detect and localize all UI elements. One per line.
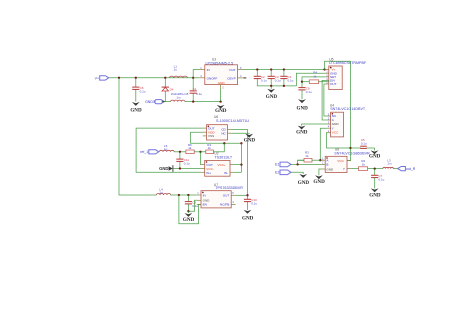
ground below C8 <box>297 99 309 111</box>
svg-text:LTC6995CS6TRMPBF: LTC6995CS6TRMPBF <box>329 61 367 65</box>
svg-text:0.1u: 0.1u <box>379 178 385 182</box>
svg-text:SN74LVC1G14DBVT: SN74LVC1G14DBVT <box>330 107 366 111</box>
capacitor C3 <box>268 70 281 86</box>
node junction R1/C8 <box>301 81 303 83</box>
svg-text:TS3011ILT: TS3011ILT <box>214 155 232 159</box>
svg-text:GND: GND <box>215 108 227 114</box>
svg-text:0.1u: 0.1u <box>288 79 294 83</box>
svg-text:1k: 1k <box>305 154 309 158</box>
svg-text:out_R: out_R <box>406 167 416 171</box>
node junction C4 <box>283 68 285 70</box>
svg-text:OUT: OUT <box>229 68 236 72</box>
pin stub U4 VCC <box>327 132 330 134</box>
wire R4 pullup to VCC line <box>223 143 225 152</box>
wire to U2 IN- <box>234 171 242 173</box>
capacitor C9 <box>185 195 199 211</box>
ground right of C5 <box>369 148 381 159</box>
wire CBYP no-connect dash <box>244 77 247 79</box>
inductor L1 <box>169 64 187 78</box>
svg-text:VSS: VSS <box>208 134 214 138</box>
svg-text:GND: GND <box>326 168 334 172</box>
svg-text:VCC+: VCC+ <box>218 163 227 167</box>
wire U4 GND to ground <box>302 123 328 125</box>
node junction D4 <box>164 77 166 79</box>
pin stub U7 NC/FB <box>231 203 235 205</box>
svg-text:SN74LVC1G86DBVR: SN74LVC1G86DBVR <box>334 151 370 155</box>
svg-text:GND: GND <box>369 153 381 159</box>
svg-text:GND: GND <box>298 180 310 186</box>
wire to U2 VCC+ <box>234 164 242 166</box>
pin stub U7 GND <box>197 199 201 201</box>
svg-text:0.1u: 0.1u <box>306 90 312 94</box>
svg-text:E1: E1 <box>275 163 279 167</box>
pin stub U4 A <box>327 119 330 121</box>
ground left of U4 <box>296 124 308 136</box>
resistor R6 <box>186 143 201 154</box>
op-amp U3 LP2985AIM5-2.5 <box>200 57 242 89</box>
ground right of U6 <box>244 133 256 143</box>
wire U6 OUT loop to comparator IN+ <box>136 128 203 172</box>
node junction C9 <box>187 194 189 196</box>
comparator U2 TS3011ILT <box>205 152 233 177</box>
svg-text:0.1u: 0.1u <box>140 89 146 93</box>
svg-text:GND: GND <box>369 193 381 199</box>
node junction bus C4 <box>283 85 285 87</box>
capacitor C6 <box>132 78 146 102</box>
port GND mid <box>159 165 173 172</box>
pin stub U7 IN <box>197 194 201 196</box>
pin stub U6 OUT <box>203 127 207 129</box>
pin stub U5 SET <box>326 76 329 78</box>
capacitor C2 <box>254 70 267 86</box>
wire lower rail to U3 GND <box>185 101 221 103</box>
svg-text:IN: IN <box>207 68 210 72</box>
wire branch up to R3 <box>298 160 304 164</box>
wire U8 Y to R2 <box>351 168 359 170</box>
inductor L3 <box>383 158 398 168</box>
pin stub U6 VDD <box>203 131 207 133</box>
pin stub U3 ONOFF <box>199 77 205 79</box>
node junction C6 <box>135 77 137 79</box>
svg-text:1m: 1m <box>176 96 181 100</box>
wire U5 SET down to R1 node <box>302 77 326 82</box>
capacitor C4 <box>280 70 293 86</box>
ground below C6 <box>130 102 142 113</box>
svg-text:C1: C1 <box>193 87 197 91</box>
inductor L2 <box>171 96 185 102</box>
svg-text:GND3: GND3 <box>145 100 155 104</box>
svg-text:GND: GND <box>183 217 195 223</box>
capacitor C11 <box>176 152 190 169</box>
pin stub U4 Y <box>327 127 330 129</box>
svg-text:IN-: IN- <box>224 171 228 175</box>
inductor L4 <box>157 188 171 195</box>
svg-text:GND: GND <box>130 107 142 113</box>
svg-text:0.1u: 0.1u <box>275 79 281 83</box>
svg-text:0.1u: 0.1u <box>196 92 202 96</box>
capacitor C8 <box>298 82 312 100</box>
pin stub U6 CD <box>228 129 232 131</box>
pin stub U8 A <box>322 159 326 161</box>
port V+ <box>95 76 109 81</box>
svg-text:1k: 1k <box>188 146 192 150</box>
wire top rail from V+ <box>109 77 194 79</box>
svg-text:IN+: IN+ <box>206 171 211 175</box>
svg-text:1u: 1u <box>174 68 178 72</box>
svg-text:ONOFF: ONOFF <box>207 76 218 80</box>
svg-text:IN: IN <box>203 194 206 198</box>
svg-text:E2: E2 <box>275 171 279 175</box>
node junction C2 <box>256 68 258 70</box>
node junction V+ branch <box>118 77 120 79</box>
node junction VCC rail <box>349 147 351 149</box>
ground below capacitor bank <box>266 86 278 100</box>
svg-text:CBYP: CBYP <box>227 76 235 80</box>
wire GND port to U2 VCC- <box>173 168 201 170</box>
node junction C1 / IN jog <box>192 77 194 79</box>
wire U3 GND down <box>220 89 222 102</box>
pin stub U3 CBYP <box>238 77 244 79</box>
pin stub U7 EN <box>197 203 201 205</box>
node junction R6/R4/OUT <box>199 151 201 153</box>
wire U5 DIV down to U4 A <box>322 80 329 120</box>
svg-text:NC: NC <box>221 131 226 135</box>
resistor R2 <box>359 159 383 170</box>
ground below C9 <box>183 211 195 223</box>
resistor R1 <box>302 71 329 84</box>
port ref_1 <box>140 150 158 154</box>
wire L4 to U7 IN <box>171 194 197 196</box>
svg-text:D4: D4 <box>170 87 174 91</box>
resistor R4 <box>201 143 225 154</box>
wire VCC rail to U8 VCC <box>347 148 351 161</box>
svg-text:TPS76333DBVR: TPS76333DBVR <box>215 186 243 190</box>
wire E1 to U8 B <box>291 163 322 165</box>
wire capacitor ground bus <box>257 85 296 87</box>
inverter U4 SN74LVC1G14DBVT <box>328 104 366 137</box>
pin stub U3 IN <box>199 69 205 71</box>
pin stub U2 OUT <box>201 164 205 166</box>
pin stub U2 VCC- <box>201 168 205 170</box>
svg-text:0.1u: 0.1u <box>261 79 267 83</box>
svg-text:Y: Y <box>343 167 345 171</box>
port out_R <box>398 167 416 172</box>
wire U6 VDD to VCC+ column <box>191 132 242 143</box>
svg-text:0.1u: 0.1u <box>184 161 190 165</box>
svg-text:1k: 1k <box>362 163 366 167</box>
wire V+ loop over U5 <box>325 61 351 148</box>
capacitor C7 <box>371 169 385 189</box>
node junction VCC+ <box>240 163 242 165</box>
wire E2 to ground <box>291 172 303 174</box>
pin stub U6 VSS <box>203 135 207 137</box>
pin stub U2 IN+ <box>201 171 205 173</box>
port GND3 <box>145 100 165 104</box>
regulator U7 TPS76333DBVR <box>197 183 243 208</box>
node junction R4 pullup top <box>223 142 225 144</box>
svg-text:B: B <box>326 163 328 167</box>
timer U5 LTC6995CS6TRMPBF <box>326 57 367 89</box>
wire U7 OUT to C10 node <box>236 194 248 196</box>
svg-text:0.1u: 0.1u <box>361 141 367 145</box>
port E1 <box>275 162 291 167</box>
diode D4 <box>162 78 189 102</box>
xor U8 SN74LVC1G86DBVR <box>322 148 370 173</box>
svg-text:OUT: OUT <box>330 82 337 86</box>
svg-text:NC/FB: NC/FB <box>220 203 229 207</box>
svg-text:GND: GND <box>244 138 256 144</box>
pin stub U2 IN- <box>230 171 234 173</box>
pin stub U6 NC <box>228 132 232 134</box>
svg-text:GND: GND <box>218 81 226 85</box>
wire EN loop <box>179 195 201 224</box>
wire U5 OUT down to U4 NC <box>324 84 328 116</box>
ground below U8 <box>313 175 325 185</box>
capacitor C5 <box>351 138 375 148</box>
pin stub U4 NC <box>327 115 330 117</box>
wire U6 CD right and down to 3V3 rail <box>231 130 247 196</box>
svg-text:GND: GND <box>313 179 325 185</box>
node junction C10 <box>246 194 248 196</box>
node junction EN loop <box>178 194 180 196</box>
pin stub U8 Y <box>347 168 351 170</box>
wire vertical V+ branch down <box>119 78 157 195</box>
svg-text:VCC: VCC <box>332 131 339 135</box>
node junction C7 <box>374 167 376 169</box>
svg-text:GND: GND <box>297 106 309 112</box>
ground below C7 <box>369 188 381 198</box>
wire U4 VCC down to VCC rail <box>327 133 351 149</box>
svg-text:GND: GND <box>266 94 278 100</box>
node junction U5 V+ <box>323 68 325 70</box>
svg-text:GND: GND <box>242 215 254 221</box>
wire U4 Y down to U8 A node <box>320 128 327 160</box>
node junction ground U7 <box>187 210 189 212</box>
pin stub U2 VCC+ <box>230 164 234 166</box>
wire jog to U3 IN <box>193 70 198 78</box>
wire rail to ONOFF <box>193 77 198 79</box>
wire U8 GND to ground <box>319 169 322 175</box>
svg-text:S-1000C14I-M5T1U: S-1000C14I-M5T1U <box>216 119 249 123</box>
pin stub U5 OUT <box>326 83 329 85</box>
svg-text:V+: V+ <box>95 77 99 81</box>
node junction C11 bottom <box>179 167 181 169</box>
pin stub U5 V+ <box>325 69 329 71</box>
svg-text:1k: 1k <box>208 146 212 150</box>
svg-text:0.1u: 0.1u <box>251 202 257 206</box>
ground below U3 <box>215 105 227 114</box>
node junction VCC+ column top <box>240 142 242 144</box>
wire U6 NC to ground <box>231 132 249 134</box>
wire U3 OUT rail <box>244 69 326 71</box>
wire VCC+ column down <box>240 143 242 172</box>
node junction C3 <box>270 68 272 70</box>
pin stub U3 GND <box>220 85 222 89</box>
node junction U3 GND <box>219 100 221 102</box>
svg-text:ref_1: ref_1 <box>140 150 148 154</box>
resistor R3 <box>298 150 322 162</box>
wire U7 GND to ground node <box>188 200 196 211</box>
node junction U8 A <box>319 159 321 161</box>
node junction B branch <box>296 163 298 165</box>
pin stub U7 OUT <box>231 194 235 196</box>
svg-text:OUT: OUT <box>223 194 230 198</box>
svg-text:1m: 1m <box>387 161 392 165</box>
capacitor C1 <box>190 78 203 102</box>
node junction bus C3 <box>270 85 272 87</box>
node junction lower rail C1 <box>192 100 194 102</box>
pin stub U5 GND <box>326 72 329 74</box>
svg-text:EN: EN <box>203 203 207 207</box>
pin stub U8 VCC <box>347 160 351 162</box>
pin stub U8 GND <box>322 168 326 170</box>
svg-text:1k: 1k <box>313 74 317 78</box>
detector U6 S-1000C14I-M5T1U <box>207 115 250 140</box>
wire lower rail GND3 to L2 <box>163 101 170 103</box>
wire U5 GND to cap bus <box>296 73 325 86</box>
svg-text:VCC: VCC <box>337 159 344 163</box>
ground below C10 <box>242 210 254 222</box>
capacitor C10 <box>244 195 258 210</box>
svg-text:GND: GND <box>296 130 308 136</box>
inductor L5 <box>159 144 186 152</box>
wire down to U2 OUT <box>200 152 202 165</box>
pin stub U3 OUT <box>238 69 244 71</box>
node junction C11 top <box>179 151 181 153</box>
ground below E2 wire <box>298 174 310 186</box>
pin stub U4 GND <box>327 123 330 125</box>
port E2 <box>275 170 291 175</box>
svg-text:GND: GND <box>159 166 168 171</box>
pin stub U8 B <box>322 163 326 165</box>
